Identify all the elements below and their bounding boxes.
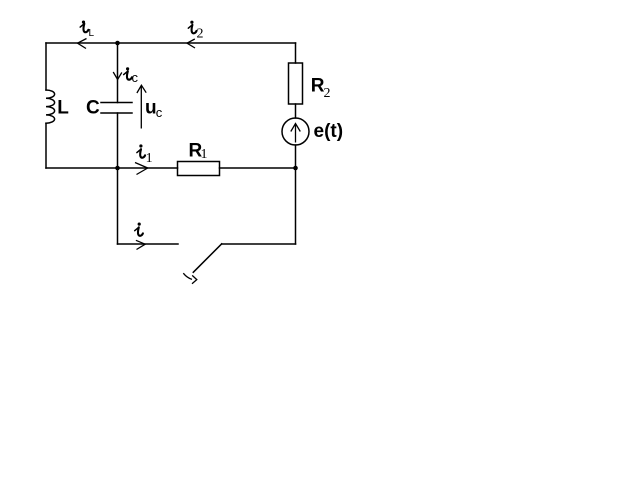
junction node A dot xyxy=(115,41,120,46)
wire: middle horizontal left part (node B to R1) xyxy=(46,167,178,169)
junction node C dot xyxy=(293,166,298,171)
svg-text:1: 1 xyxy=(146,151,153,166)
resistor R1 body xyxy=(178,162,220,176)
svg-text:2: 2 xyxy=(197,27,204,42)
label R1 xyxy=(189,141,208,162)
junction node B dot xyxy=(115,166,120,171)
svg-text:c: c xyxy=(132,70,139,85)
svg-text:L: L xyxy=(57,98,69,119)
svg-text:1: 1 xyxy=(201,147,208,162)
arrow for current i2 on top wire xyxy=(187,39,195,48)
label iL xyxy=(80,21,94,40)
wire: left vertical upper segment xyxy=(45,43,47,90)
arrow for current ic on middle vertical wire xyxy=(113,72,122,80)
wire: middle vertical from capacitor bottom plate through node B down xyxy=(117,113,119,244)
label uc xyxy=(145,98,163,120)
arrow for current i1 on middle wire xyxy=(135,163,148,175)
capacitor C plates xyxy=(101,103,132,114)
source e(t) circle xyxy=(282,118,309,145)
source e(t) internal arrow xyxy=(291,124,301,143)
wire: left vertical lower segment xyxy=(45,123,47,168)
arrow for voltage uc xyxy=(137,85,146,128)
label i (total current, bottom) xyxy=(135,223,143,236)
svg-text:2: 2 xyxy=(324,86,331,101)
wire: right vertical from node C up to source circle xyxy=(295,145,297,168)
svg-text:c: c xyxy=(156,105,163,120)
arrow for current i on bottom wire xyxy=(136,240,145,249)
label R2 xyxy=(311,76,331,101)
wire: top horizontal from node A to top-right corner xyxy=(46,42,296,44)
wire: right vertical from R2 to top-right corner xyxy=(295,43,297,63)
label ic xyxy=(124,67,139,85)
svg-text:L: L xyxy=(89,28,95,39)
label i1 xyxy=(137,144,153,166)
wire: middle horizontal right part (R1 to node C) xyxy=(220,167,296,169)
svg-text:C: C xyxy=(86,98,100,119)
wire: bottom horizontal left (to switch contact) xyxy=(118,243,179,245)
switch blade (open) xyxy=(193,244,221,272)
wire: right vertical from source circle to R2 xyxy=(295,104,297,118)
switch motion arrow xyxy=(183,273,197,284)
wire: bottom horizontal right from switch pivot to bottom-right corner xyxy=(222,243,296,245)
label i2 xyxy=(188,21,203,42)
arrow for current iL on top wire xyxy=(78,39,87,49)
inductor L xyxy=(46,90,55,123)
wire: middle vertical from node A to capacitor top plate xyxy=(117,43,119,103)
resistor R2 body xyxy=(289,63,303,104)
wire: right vertical from node C down to bottom wire xyxy=(295,168,297,244)
svg-text:e(t): e(t) xyxy=(314,121,344,142)
